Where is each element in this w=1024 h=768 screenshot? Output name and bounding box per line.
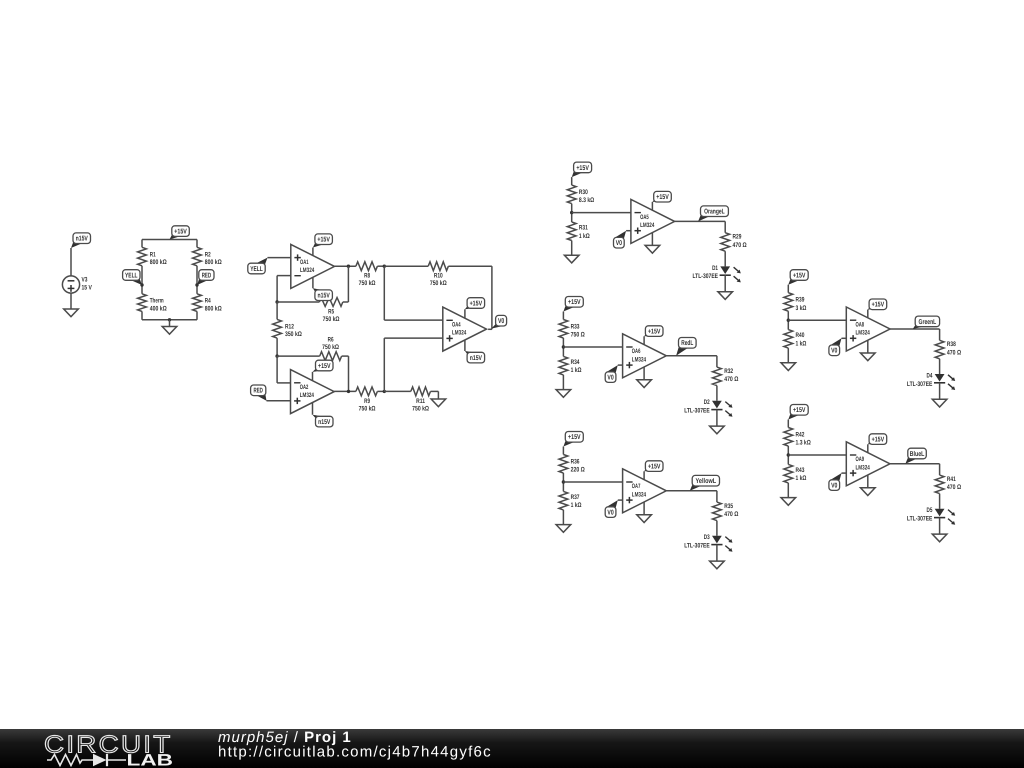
net flag +15V (R36 divider) (563, 440, 575, 447)
wire (384, 390, 411, 392)
svg-text:R9: R9 (364, 398, 370, 405)
svg-text:LM324: LM324 (640, 222, 655, 229)
svg-text:LM324: LM324 (856, 330, 871, 337)
svg-text:1 kΩ: 1 kΩ (571, 367, 582, 374)
wire (70, 248, 72, 276)
svg-text:V0: V0 (616, 240, 622, 247)
junction (347, 265, 350, 268)
svg-text:n15V: n15V (470, 355, 482, 362)
svg-text:R41: R41 (947, 476, 956, 483)
wire (571, 241, 573, 256)
LED D4 (935, 374, 945, 382)
wire (939, 518, 941, 535)
net flag n15V (OA2) (313, 415, 326, 419)
svg-text:+15V: +15V (576, 165, 589, 172)
wire (OA2 V+ pin) (312, 372, 314, 381)
wire (335, 265, 356, 267)
svg-text:1 kΩ: 1 kΩ (796, 340, 807, 347)
op-amp OA5 (631, 199, 675, 243)
net flag +15V (OA2) (313, 368, 326, 372)
svg-text:YELL: YELL (125, 272, 138, 279)
wire (842, 472, 847, 474)
LED D3 (712, 536, 722, 544)
wire (563, 346, 622, 348)
svg-text:LAB: LAB (127, 752, 174, 768)
svg-text:+15V: +15V (793, 407, 806, 414)
svg-text:OA5: OA5 (640, 214, 649, 221)
wire (384, 319, 443, 321)
net flag V0 (OA4 output) (491, 323, 505, 328)
wire (142, 319, 197, 321)
wire (890, 328, 940, 330)
wire (OA7 V- pin) (643, 502, 645, 515)
svg-text:V3: V3 (82, 277, 88, 284)
wire (OA8 V+ pin) (867, 310, 869, 318)
wire (939, 494, 941, 509)
svg-text:R33: R33 (571, 323, 580, 330)
thermistor Therm (138, 294, 147, 312)
resistor R43 (784, 464, 793, 483)
junction (RED node) (195, 283, 198, 286)
svg-text:+15V: +15V (656, 194, 669, 201)
net flag +15V (R33 divider) (563, 305, 575, 312)
svg-text:750 kΩ: 750 kΩ (359, 280, 376, 287)
ground (645, 245, 660, 253)
svg-text:+15V: +15V (648, 329, 661, 336)
wire (377, 265, 384, 267)
wire (716, 491, 718, 502)
junction (347, 390, 350, 393)
wire (724, 221, 726, 232)
wire (383, 266, 385, 320)
svg-text:V0: V0 (607, 510, 613, 517)
wire (347, 266, 349, 302)
svg-text:R37: R37 (571, 494, 580, 501)
net flag +15V (OA5 power) (652, 199, 663, 202)
net flag +15V (OA7 power) (644, 469, 655, 472)
wire (OA6 V- pin) (643, 367, 645, 380)
svg-text:+15V: +15V (872, 437, 885, 444)
resistor R31 (567, 222, 576, 241)
ground (556, 390, 571, 398)
junction (bridge bottom) (168, 318, 171, 321)
svg-text:+15V: +15V (793, 272, 806, 279)
wire (384, 265, 428, 267)
ground (932, 399, 947, 407)
op-amp OA2 (291, 370, 335, 414)
net flag OrangeL (698, 214, 710, 222)
wire (787, 446, 789, 464)
svg-text:R39: R39 (796, 297, 805, 304)
wire (716, 386, 718, 401)
wire (334, 390, 356, 392)
svg-text:GreenL: GreenL (919, 319, 937, 326)
resistor R35 (713, 502, 722, 520)
ground (781, 498, 796, 506)
resistor R9 (356, 387, 378, 396)
wire (787, 420, 789, 428)
svg-text:LM324: LM324 (632, 356, 647, 363)
wire (666, 355, 717, 357)
svg-text:800 kΩ: 800 kΩ (150, 259, 167, 266)
net flag +15V (OA4) (465, 306, 477, 310)
resistor R38 (935, 340, 944, 359)
wire (448, 265, 492, 267)
op-amp OA9 (846, 442, 890, 486)
svg-text:750 kΩ: 750 kΩ (323, 316, 340, 323)
junction (RedL divider node) (562, 345, 565, 348)
wire (196, 240, 198, 248)
svg-text:470 Ω: 470 Ω (724, 376, 739, 383)
wire (788, 454, 846, 456)
resistor R1 (138, 247, 147, 265)
net flag V0 (OA8 + input) (830, 338, 842, 347)
svg-text:R6: R6 (328, 336, 334, 343)
resistor R39 (784, 293, 793, 312)
net flag GreenL (913, 324, 925, 329)
wire (277, 301, 319, 303)
wire (OA2 V- pin) (312, 403, 314, 415)
wire (787, 483, 789, 498)
svg-text:R38: R38 (947, 341, 956, 348)
wire (277, 382, 290, 384)
wire (562, 447, 564, 455)
svg-text:400 kΩ: 400 kΩ (150, 305, 167, 312)
wire (276, 356, 278, 383)
svg-text:LM324: LM324 (452, 330, 467, 337)
resistor R41 (935, 475, 944, 494)
svg-text:OA8: OA8 (856, 321, 865, 328)
wire (562, 312, 564, 320)
svg-text:R2: R2 (205, 251, 211, 258)
svg-text:8.3 kΩ: 8.3 kΩ (579, 197, 595, 204)
ground (861, 488, 876, 496)
svg-text:15 V: 15 V (82, 285, 93, 292)
svg-text:1 kΩ: 1 kΩ (579, 233, 590, 240)
ground (564, 255, 579, 263)
wire (142, 239, 197, 241)
svg-text:V0: V0 (831, 348, 837, 355)
wire (563, 481, 622, 483)
resistor R4 (193, 294, 202, 312)
svg-text:OA1: OA1 (300, 259, 309, 266)
svg-text:LM324: LM324 (856, 464, 871, 471)
svg-text:220 Ω: 220 Ω (571, 467, 586, 474)
ground (932, 534, 947, 542)
net flag RED (OA2 input) (256, 393, 267, 401)
ground (556, 525, 571, 533)
svg-text:1 kΩ: 1 kΩ (796, 475, 807, 482)
net flag +15V (bridge) (170, 234, 182, 240)
svg-text:LTL-307EE: LTL-307EE (907, 516, 933, 523)
junction (275, 300, 278, 303)
net flag +15V (R39 divider) (788, 278, 800, 285)
junction (383, 390, 386, 393)
svg-text:750 kΩ: 750 kΩ (322, 344, 339, 351)
ground (162, 327, 177, 335)
wire (939, 383, 941, 400)
junction (275, 354, 278, 357)
junction (YELL node) (140, 283, 143, 286)
net flag n15V (V3) (71, 241, 83, 248)
svg-text:+15V: +15V (174, 229, 187, 236)
resistor R29 (721, 233, 730, 252)
resistor R12 (273, 319, 282, 338)
wire (196, 311, 198, 319)
svg-text:LTL-307EE: LTL-307EE (693, 273, 719, 280)
svg-text:LTL-307EE: LTL-307EE (684, 408, 710, 415)
svg-text:n15V: n15V (318, 293, 330, 300)
wire (787, 311, 789, 329)
svg-text:800 kΩ: 800 kΩ (205, 305, 222, 312)
wire (267, 400, 291, 402)
net flag +15V (OA6 power) (644, 334, 655, 337)
wire (939, 359, 941, 374)
wire (562, 473, 564, 491)
wire (571, 177, 573, 185)
svg-text:R30: R30 (579, 189, 588, 196)
svg-text:350 kΩ: 350 kΩ (285, 331, 302, 338)
wire (276, 338, 278, 356)
op-amp OA7 (623, 469, 667, 513)
net flag YellowL (690, 483, 702, 490)
footer bar (0, 0, 1, 1)
wire (343, 301, 349, 303)
svg-text:+15V: +15V (568, 434, 581, 441)
svg-text:R4: R4 (205, 298, 211, 305)
svg-text:n15V: n15V (318, 419, 330, 426)
wire (OA9 V+ pin) (867, 444, 869, 452)
wire (OA1 V- pin) (312, 278, 314, 289)
svg-text:+15V: +15V (318, 363, 331, 370)
wire (724, 251, 726, 266)
net flag BlueL (905, 456, 917, 464)
resistor R10 (428, 262, 448, 271)
wire (277, 275, 291, 277)
net flag V0 (OA7 + input) (606, 500, 618, 509)
resistor R37 (559, 491, 568, 510)
resistor R40 (784, 330, 793, 349)
svg-text:1 kΩ: 1 kΩ (571, 502, 582, 509)
net flag +15V (R30 divider) (572, 170, 584, 177)
wire (618, 499, 623, 501)
wire (OA6 V+ pin) (643, 336, 645, 344)
svg-text:OA9: OA9 (856, 456, 865, 463)
resistor R30 (567, 185, 576, 204)
svg-text:R36: R36 (571, 458, 580, 465)
svg-text:LM324: LM324 (300, 392, 315, 399)
svg-text:R11: R11 (416, 398, 425, 405)
LED D5 (935, 509, 945, 517)
svg-text:750 kΩ: 750 kΩ (359, 405, 376, 412)
wire (716, 356, 718, 367)
ground (718, 292, 733, 300)
wire (618, 364, 623, 366)
wire (348, 356, 350, 391)
wire (562, 510, 564, 525)
ground (781, 363, 796, 371)
wire (724, 275, 726, 292)
wire (571, 204, 573, 222)
svg-text:V0: V0 (498, 318, 504, 325)
op-amp OA6 (623, 334, 667, 378)
resistor R34 (559, 356, 568, 375)
svg-text:Therm: Therm (150, 298, 164, 305)
junction (OrangeL divider node) (570, 211, 573, 214)
resistor R2 (193, 247, 202, 265)
resistor R33 (559, 320, 568, 339)
wire (OA5 V+ pin) (651, 202, 653, 210)
svg-text:800 kΩ: 800 kΩ (205, 259, 222, 266)
wire (169, 320, 171, 327)
wire (196, 266, 198, 294)
svg-text:R31: R31 (579, 224, 588, 231)
svg-text:R40: R40 (796, 332, 805, 339)
wire (626, 230, 631, 232)
svg-text:+15V: +15V (648, 464, 661, 471)
wire (842, 337, 847, 339)
net flag RedL (676, 346, 688, 356)
svg-text:LM324: LM324 (300, 267, 315, 274)
wire (383, 338, 385, 391)
svg-text:+15V: +15V (872, 302, 885, 309)
wire (377, 390, 384, 392)
svg-text:R43: R43 (796, 467, 805, 474)
svg-text:R42: R42 (796, 431, 805, 438)
wire (268, 257, 291, 259)
svg-text:R35: R35 (724, 503, 733, 510)
svg-text:1.3 kΩ: 1.3 kΩ (796, 440, 812, 447)
wire (OA7 V+ pin) (643, 471, 645, 479)
svg-text:V0: V0 (607, 375, 613, 382)
svg-text:OA7: OA7 (632, 483, 641, 490)
wire (OA5 V- pin) (651, 233, 653, 246)
ground (431, 399, 446, 407)
resistor R32 (713, 367, 722, 386)
wire (141, 266, 143, 294)
wire (342, 355, 349, 357)
wire (431, 390, 439, 392)
resistor R5 (319, 298, 342, 307)
junction (GreenL divider node) (787, 319, 790, 322)
svg-text:D5: D5 (927, 507, 933, 514)
net flag n15V (OA1) (313, 288, 325, 292)
junction (YellowL divider node) (562, 480, 565, 483)
ground (637, 515, 652, 523)
net flag +15V (OA8 power) (868, 307, 879, 310)
svg-text:D2: D2 (704, 399, 710, 406)
ground (64, 309, 79, 317)
svg-text:+15V: +15V (568, 299, 581, 306)
wire (276, 302, 278, 319)
svg-text:D3: D3 (704, 534, 710, 541)
wire (890, 463, 940, 465)
wire (716, 410, 718, 427)
svg-text:+15V: +15V (470, 300, 483, 307)
net flag +15V (R42 divider) (788, 413, 800, 420)
svg-text:+15V: +15V (317, 237, 330, 244)
svg-text:RED: RED (254, 388, 263, 395)
svg-text:YellowL: YellowL (696, 477, 717, 485)
ground (710, 426, 725, 434)
svg-text:LTL-307EE: LTL-307EE (684, 543, 710, 550)
resistor R6 (320, 352, 342, 361)
wire (562, 375, 564, 390)
net flag +15V (OA9 power) (868, 442, 879, 445)
resistor R11 (411, 387, 431, 396)
svg-text:R34: R34 (571, 359, 580, 366)
wire (141, 240, 143, 248)
wire (OA1 V+ pin) (312, 248, 314, 256)
wire (141, 311, 143, 319)
svg-text:D1: D1 (712, 265, 718, 272)
net flag RED (bridge) (197, 278, 209, 285)
svg-text:BlueL: BlueL (910, 450, 925, 458)
svg-text:n15V: n15V (76, 236, 88, 243)
svg-text:V0: V0 (831, 483, 837, 490)
svg-text:750 kΩ: 750 kΩ (430, 280, 447, 287)
svg-text:LM324: LM324 (632, 491, 647, 498)
svg-text:http://circuitlab.com/cj4b7h44: http://circuitlab.com/cj4b7h44gyf6c (218, 744, 492, 761)
wire (939, 464, 941, 475)
resistor R8 (356, 262, 378, 271)
wire (939, 329, 941, 340)
net flag V0 (OA5 + input) (614, 231, 626, 240)
ground (637, 380, 652, 388)
wire (OA8 V- pin) (867, 340, 869, 353)
LED D1 (720, 266, 730, 274)
wire (OA4 V+ pin) (464, 309, 466, 318)
svg-text:OA6: OA6 (632, 348, 641, 355)
wire (716, 521, 718, 536)
net flag YELL (bridge) (130, 278, 142, 285)
svg-text:D4: D4 (927, 372, 933, 379)
resistor R36 (559, 455, 568, 474)
svg-text:470 Ω: 470 Ω (947, 484, 962, 491)
svg-text:LTL-307EE: LTL-307EE (907, 381, 933, 388)
wire (277, 355, 320, 357)
junction (BlueL divider node) (787, 453, 790, 456)
svg-text:470 Ω: 470 Ω (947, 349, 962, 356)
wire (491, 266, 493, 329)
svg-text:R32: R32 (724, 368, 733, 375)
svg-text:R1: R1 (150, 251, 156, 258)
svg-text:3 kΩ: 3 kΩ (796, 305, 807, 312)
LED D2 (712, 401, 722, 409)
wire (787, 285, 789, 293)
wire (788, 319, 846, 321)
wire (276, 276, 278, 302)
svg-text:R5: R5 (328, 308, 334, 315)
svg-text:470 Ω: 470 Ω (724, 511, 739, 518)
junction (383, 265, 386, 268)
svg-text:RedL: RedL (681, 339, 693, 347)
op-amp OA8 (846, 307, 890, 351)
wire (716, 545, 718, 562)
svg-text:RED: RED (202, 272, 211, 279)
op-amp OA1 (291, 244, 335, 288)
svg-text:OrangeL: OrangeL (704, 209, 725, 216)
net flag V0 (OA9 + input) (830, 473, 842, 482)
ground (710, 561, 725, 569)
wire (OA4 V- pin) (464, 340, 466, 351)
svg-text:R8: R8 (364, 273, 370, 280)
voltage source V3 (62, 276, 79, 293)
net flag YELL (OA1 input) (255, 258, 267, 266)
op-amp OA4 (443, 307, 487, 351)
wire (562, 338, 564, 356)
wire (OA9 V- pin) (867, 475, 869, 488)
